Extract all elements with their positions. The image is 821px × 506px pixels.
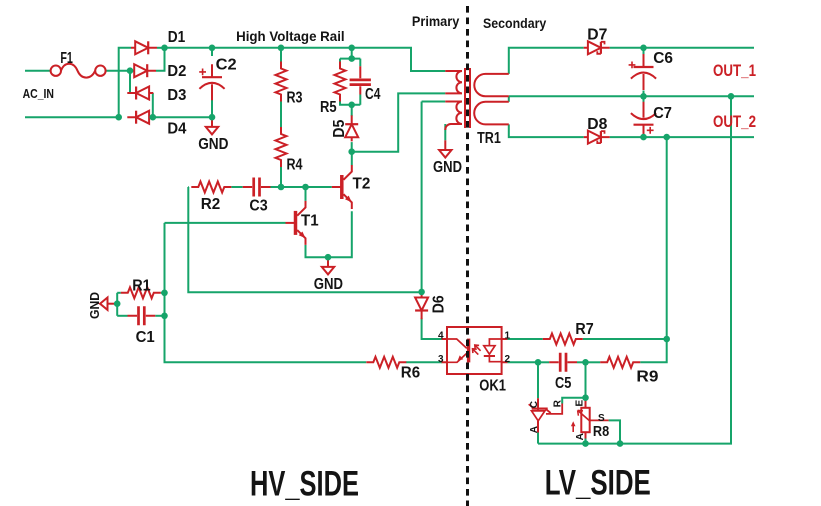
svg-text:D2: D2 [167,63,186,80]
svg-text:R1: R1 [132,278,151,295]
wire primary2 bottom to gnd [444,124,446,140]
capacitor C5 [549,353,577,372]
wire R2 to C3 [231,186,242,188]
wire C6 to middle rail [643,91,645,97]
svg-text:D3: D3 [167,87,186,104]
junction node R3 top [278,45,285,52]
junction node snubber top [348,55,355,62]
svg-text:C2: C2 [216,57,237,74]
wire R9 up to node [640,339,667,362]
svg-text:4: 4 [438,330,444,341]
capacitor C3 [243,178,271,197]
wire rail to C6 [643,48,645,54]
wire D1 cathode to rail node [157,47,165,49]
junction node C5 R9 [582,359,589,366]
svg-text:D7: D7 [587,26,607,43]
svg-text:D1: D1 [168,29,186,46]
wire OUT_1 rail [610,47,754,49]
wire secondary top to D7 [509,48,584,74]
wire R8 wiper down [609,420,620,443]
resistor R9 [600,357,640,368]
svg-text:C: C [529,401,540,408]
svg-text:A: A [575,433,586,440]
wire R2 left corner [187,186,190,188]
junction node return rail [728,93,735,100]
junction node D6 top [418,289,425,296]
junction node emitters gnd [325,254,332,261]
diode D4 [127,111,153,124]
junction node R8 bottom [582,440,589,447]
svg-text:R: R [553,399,564,407]
svg-text:D6: D6 [431,295,448,313]
svg-text:C3: C3 [249,198,267,215]
wire snubber top branch [340,58,360,60]
resistor R2 [191,182,231,193]
wire D3 anode to D4 anode [152,93,154,117]
wire D5 to node [351,142,353,152]
ground below T1 T2 emitters [322,257,334,274]
wire to R5 top [339,59,341,62]
transformer TR1 [445,68,509,130]
wire R1 C1 left node [116,293,118,316]
wire R4 to base node [280,167,282,187]
wire C5 to node [577,361,586,363]
junction node bridge minus [150,114,157,121]
junction node wiper [617,440,624,447]
junction node pin2 TL431 [535,359,542,366]
wire T1 emitter to gnd node [306,245,329,257]
junction node R8 top [582,394,589,401]
svg-text:C1: C1 [136,329,155,346]
svg-text:R7: R7 [575,321,593,338]
junction node C6 C7 [640,93,647,100]
svg-text:OK1: OK1 [479,378,506,395]
svg-text:R5: R5 [320,99,337,116]
svg-text:F1: F1 [60,50,73,67]
junction node R7 R9 [663,336,670,343]
resistor R5 [335,62,346,102]
wire T2 emitter to gnd node [328,211,352,257]
wire middle rail to C7 [643,96,645,103]
transistor T2 [332,165,352,209]
diode D3 [127,87,153,100]
primary secondary separator dashed line [466,6,469,506]
wire bridge left vertical [119,48,131,117]
svg-text:GND: GND [433,159,462,176]
wire OUT_2 rail [610,136,754,138]
wire node to primary winding bottom [352,93,446,151]
junction node bridge plus [161,45,168,52]
resistor R1 [121,287,161,298]
diode D7 schottky [584,41,610,54]
junction node snubber bottom [348,102,355,109]
svg-text:OUT_1: OUT_1 [713,61,756,80]
capacitor C1 [127,306,155,325]
wire primary2 to D6 [421,102,423,292]
diode D6 [415,293,428,319]
wire R3 to R4 [280,102,282,128]
svg-text:T2: T2 [353,176,371,193]
wire node to T1 collector [305,187,307,201]
wire T1 base [165,222,286,224]
capacitor C6 [631,54,656,90]
wire C1 left [117,315,127,317]
svg-text:R2: R2 [201,196,221,213]
trimmer potentiometer R8 [571,398,609,439]
wire left vertical to R6 [165,223,367,362]
wire high voltage rail [165,48,446,71]
ground left of R1 C1 [100,298,117,310]
wire TL431 ref to node [562,398,585,404]
svg-text:R3: R3 [287,90,303,107]
junction node C7 bottom [640,134,647,141]
wire R1 left [117,292,121,294]
svg-text:LV_SIDE: LV_SIDE [545,464,651,503]
svg-text:2: 2 [505,354,511,365]
svg-text:GND: GND [198,136,228,153]
svg-text:E: E [575,400,586,407]
svg-text:Secondary: Secondary [483,15,546,31]
wire middle rail [509,95,754,97]
wire bridge minus to C2 [153,116,212,118]
ground below transformer primary [439,140,451,157]
transistor T1 [286,201,306,245]
diode D8 schottky [584,131,610,144]
svg-text:R4: R4 [287,157,303,174]
capacitor C7 [631,102,656,138]
svg-text:A: A [529,426,540,433]
wire D2 anode to D3 cathode [129,71,131,93]
resistor R3 [276,62,287,102]
junction node R1 C1 gnd [114,300,121,307]
wire C7 to OUT_2 rail [643,134,645,137]
junction node R4 bottom [278,184,285,191]
resistor R4 [276,127,287,167]
wire node down to R8 [585,362,587,397]
wire secondary bottom to D8 [509,124,584,137]
optocoupler OK1 [442,327,508,374]
wire feedback to D6 node [188,187,421,292]
junction node AC bottom [115,114,122,121]
wire R1 right [161,292,165,294]
resistor R6 [366,357,406,368]
wire C4 bottom [359,95,361,105]
wire AC bottom [25,116,119,118]
junction node snubber rail [348,45,355,52]
diode D2 [130,64,156,77]
wire OUT_2 drop to R7 node [666,137,668,339]
svg-text:HV_SIDE: HV_SIDE [250,465,359,504]
svg-text:D4: D4 [167,121,186,138]
junction node D2 anode [127,67,134,74]
wire rail to R3 [280,48,282,62]
svg-text:S: S [598,413,605,424]
wire OK1 pin1 to R7 [508,338,543,340]
wire bottom return to middle rail [538,96,731,443]
wire OK1 pin2 to C5 node [508,361,539,363]
wire primary2 top lead [422,101,446,103]
svg-text:T1: T1 [301,213,319,230]
junction node D5 T2 [348,148,355,155]
wire rail to snubber [351,48,353,59]
svg-text:GND: GND [87,292,102,319]
wire node to R9 [586,361,601,363]
wire R7 to node [583,338,667,340]
fuse F1 [51,64,106,78]
wire to C4 top [359,59,361,67]
wire snubber bottom branch [340,102,360,105]
shunt regulator TL431 [529,398,563,432]
svg-text:R6: R6 [401,365,420,382]
svg-text:Primary: Primary [412,13,460,29]
wire D2 cathode up to rail [156,48,165,71]
svg-text:C4: C4 [365,86,380,103]
junction node OUT_2 drop [663,134,670,141]
svg-text:3: 3 [438,354,444,365]
diode D1 [131,41,157,54]
wire fuse to bridge [106,70,130,72]
junction node C2 bottom [209,114,216,121]
svg-text:R8: R8 [593,423,609,440]
junction node R1 right [161,290,168,297]
wire T2 collector up [351,152,353,166]
svg-text:TR1: TR1 [477,130,501,147]
resistor R7 [543,334,583,345]
wire rail to C2 top [211,48,213,56]
junction node C1 right [161,313,168,320]
ground below C2 [206,117,218,134]
wire node to C5 [538,361,549,363]
junction node T1 collector [302,184,309,191]
wire snubber to D5 [351,105,353,116]
wire secondary center jog [508,96,510,102]
svg-text:C7: C7 [653,105,672,122]
wire node down to TL431 [537,362,539,398]
wire TL431 anode down [537,433,539,444]
svg-text:C5: C5 [555,375,571,392]
junction node C6 top [640,45,647,52]
svg-text:AC_IN: AC_IN [23,86,54,101]
svg-text:OUT_2: OUT_2 [713,112,756,131]
wire R6 to OK1 pin3 [406,361,442,363]
svg-text:1: 1 [505,330,511,341]
wire C1 right [155,315,164,317]
svg-text:GND: GND [314,276,343,293]
svg-text:D8: D8 [587,116,607,133]
svg-text:C6: C6 [653,50,673,67]
wire C2 bottom [211,89,213,118]
svg-text:High Voltage Rail: High Voltage Rail [236,28,345,44]
svg-text:D5: D5 [331,120,348,138]
wire D6 to OK1 pin4 [422,318,442,339]
wire AC top left segment [25,70,50,72]
capacitor C4 [350,66,371,94]
junction node C2 top [209,45,216,52]
wire C3 to T2 base [271,186,332,188]
wire R8 bottom [585,439,587,444]
svg-text:R9: R9 [636,369,658,386]
diode D5 [345,115,358,141]
capacitor C2 [199,64,224,100]
